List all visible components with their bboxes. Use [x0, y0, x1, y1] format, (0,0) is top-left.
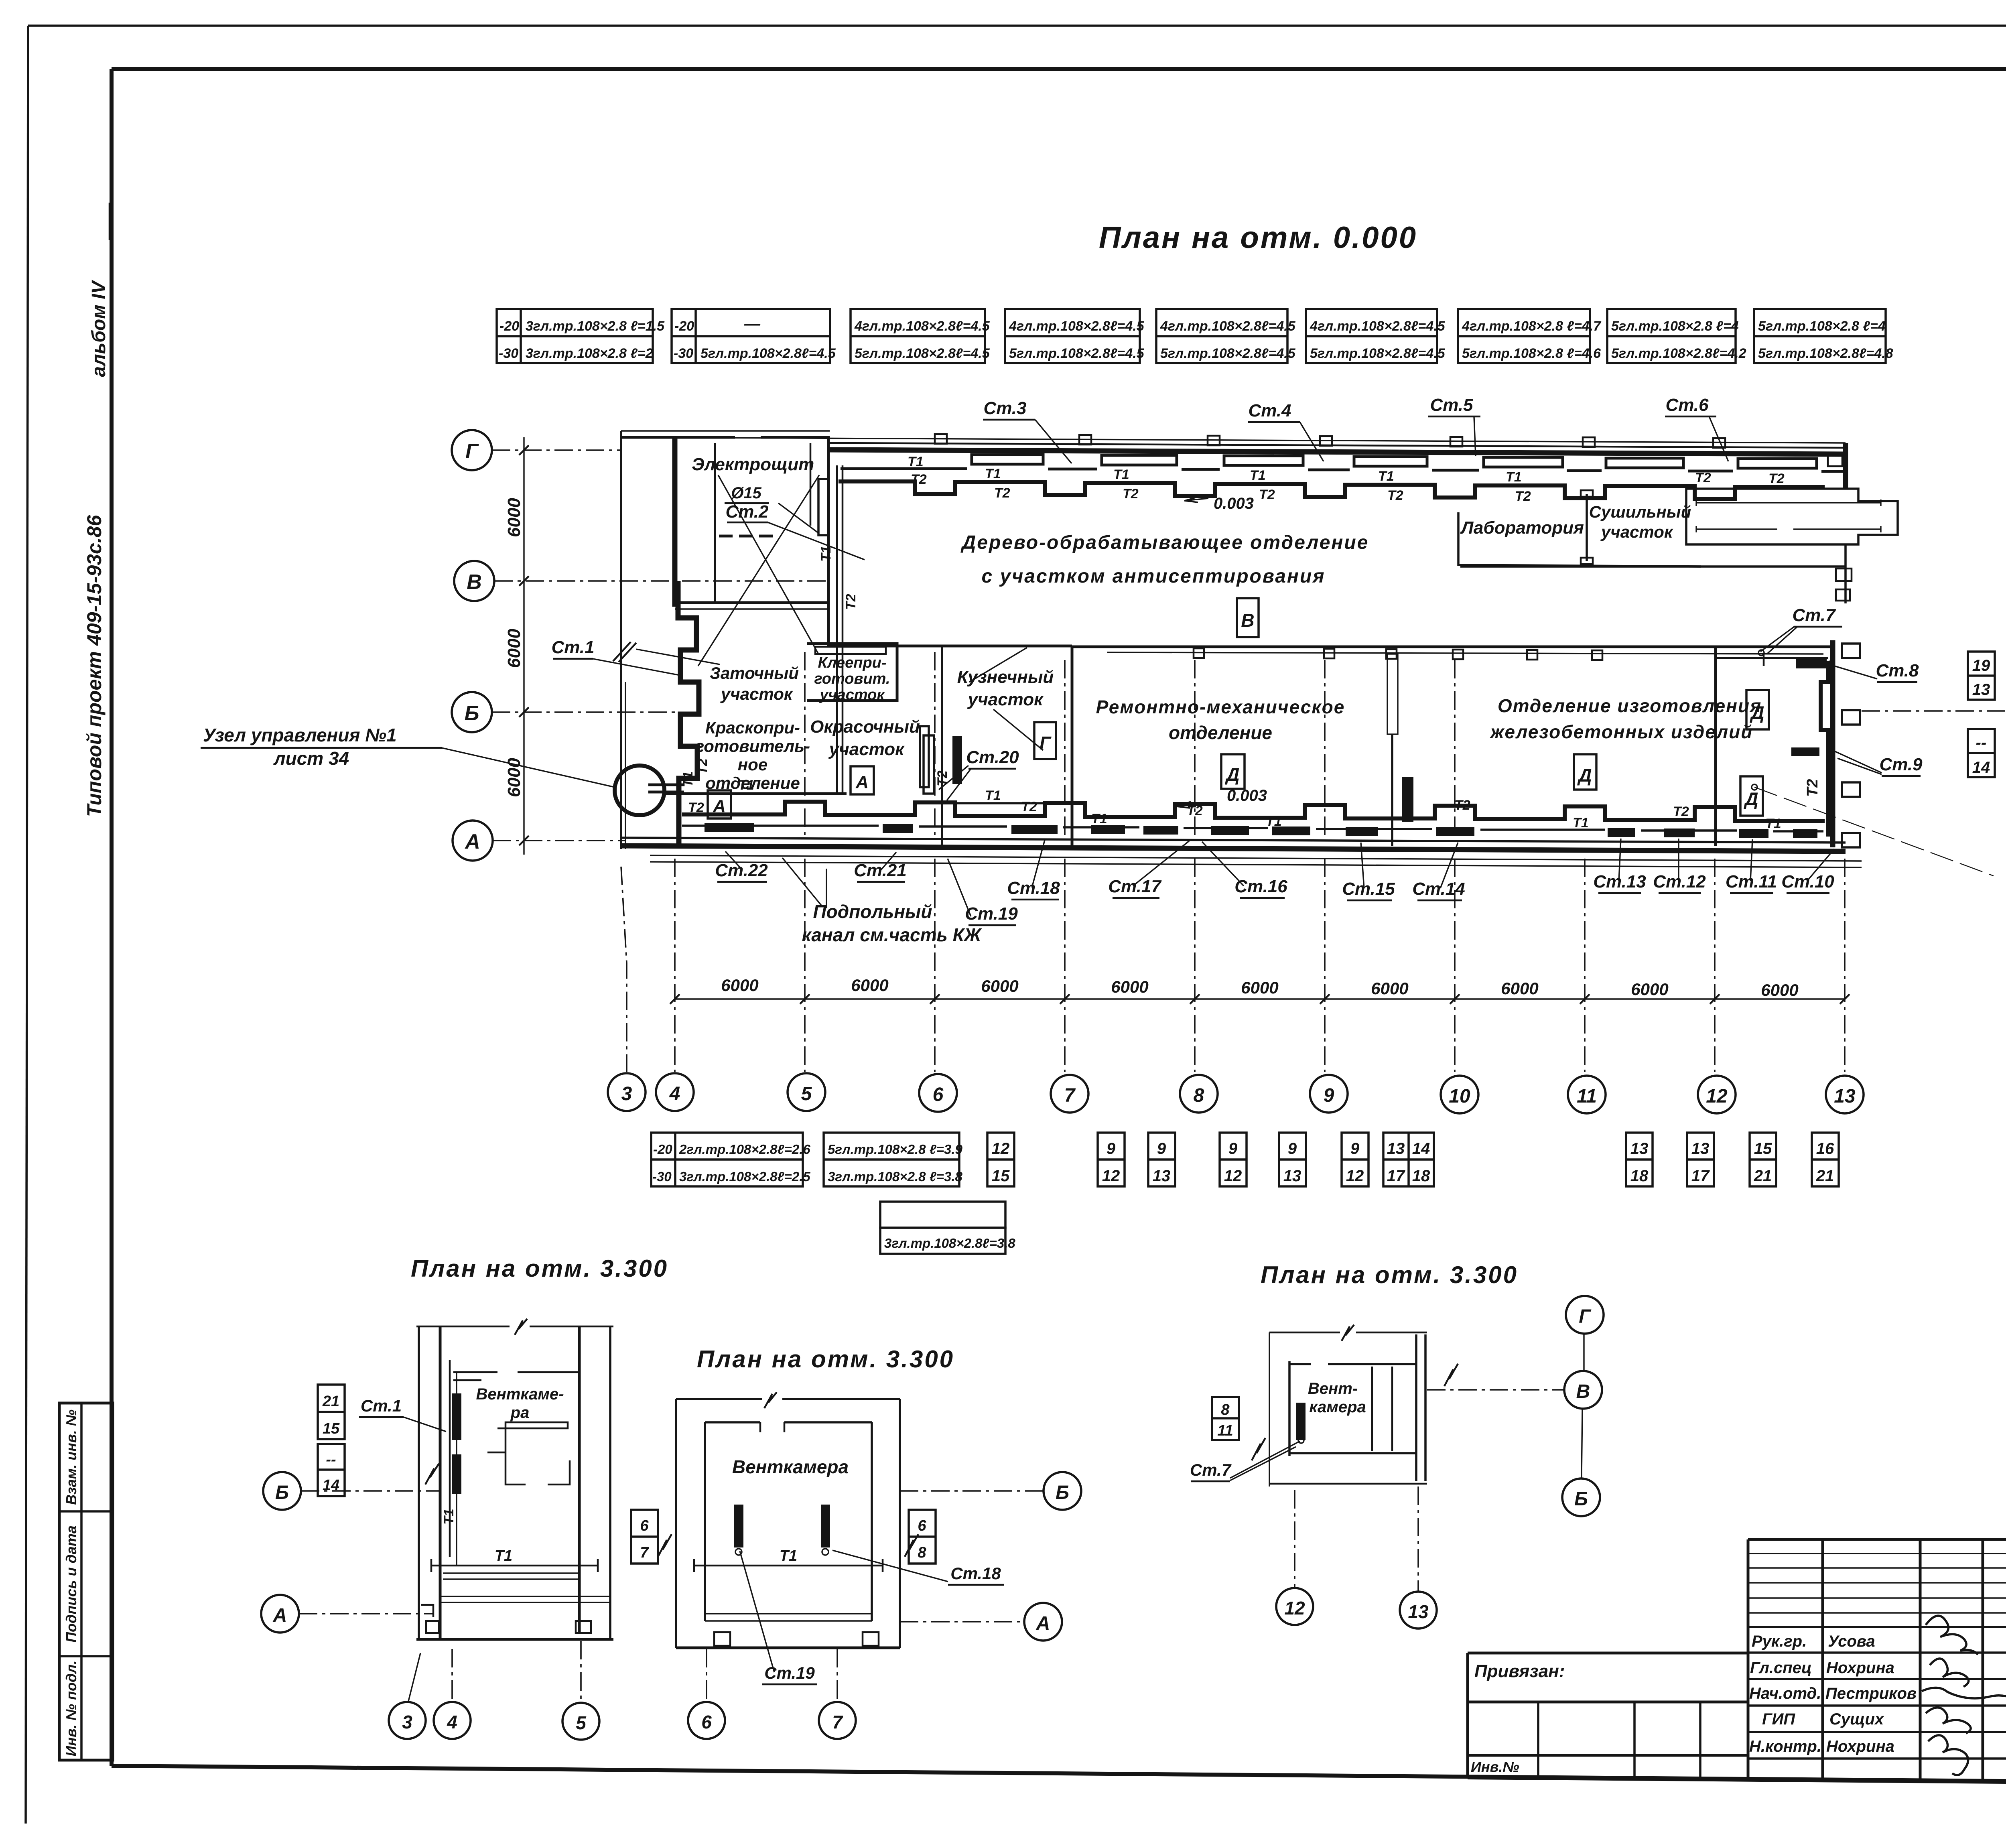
svg-text:Т1: Т1	[738, 778, 754, 793]
right wall top corner	[1843, 443, 1848, 489]
svg-text:Ст.7: Ст.7	[1792, 605, 1836, 625]
stamp row divider 2	[59, 1655, 113, 1657]
svg-text:-30: -30	[652, 1169, 672, 1184]
svg-text:Дерево-обрабатывающее отделен: Дерево-обрабатывающее отделение	[960, 532, 1369, 553]
svg-text:Отделение изготовления: Отделение изготовления	[1498, 695, 1762, 716]
BOTTOM WALL of building	[621, 846, 1846, 851]
svg-text:Т1: Т1	[1506, 469, 1522, 485]
svg-text:—: —	[744, 315, 761, 333]
svg-text:7: 7	[640, 1544, 649, 1561]
svg-text:лист 34: лист 34	[273, 748, 349, 769]
kuznechny right wall g7	[1071, 647, 1074, 846]
top wall main	[830, 450, 1846, 454]
svg-text:8: 8	[1194, 1085, 1204, 1106]
svg-text:Окрасочный: Окрасочный	[810, 717, 920, 737]
svg-text:6000: 6000	[504, 498, 524, 537]
svg-text:6000: 6000	[1501, 979, 1538, 998]
T2 riser vertical right	[1821, 661, 1828, 837]
plan L riser line	[456, 1372, 457, 1566]
svg-text:Т1: Т1	[1765, 816, 1781, 831]
dim ticks	[519, 445, 529, 845]
svg-text:Т1: Т1	[908, 454, 924, 469]
svg-text:16: 16	[1816, 1140, 1834, 1158]
plan R top line with break	[1269, 1332, 1427, 1334]
signature squiggle 5	[1928, 1735, 1968, 1775]
svg-text:участок: участок	[819, 686, 885, 703]
riser box 12/15	[987, 1133, 1014, 1186]
svg-text:21: 21	[1754, 1167, 1772, 1185]
svg-text:железобетонных изделий: железобетонных изделий	[1489, 721, 1753, 742]
svg-text:Д: Д	[1577, 765, 1592, 786]
svg-text:Т2: Т2	[1454, 798, 1470, 813]
thin top rows	[1748, 1554, 2006, 1613]
grid circle 13 plan R	[1400, 1592, 1437, 1629]
bottom radiator black bars	[705, 823, 754, 832]
svg-text:альбом IV: альбом IV	[88, 280, 110, 377]
svg-text:5гл.тр.108×2.8ℓ=4.8: 5гл.тр.108×2.8ℓ=4.8	[1758, 346, 1893, 361]
svg-text:3гл.тр.108×2.8 ℓ=1.5: 3гл.тр.108×2.8 ℓ=1.5	[526, 319, 665, 334]
right wall lower stubs	[1836, 569, 1852, 581]
svg-text:Т1: Т1	[1378, 469, 1394, 484]
svg-text:Ст.4: Ст.4	[1248, 401, 1291, 420]
svg-text:Т2: Т2	[688, 800, 704, 815]
svg-text:Т1: Т1	[495, 1547, 512, 1564]
svg-text:А: А	[855, 772, 869, 792]
svg-text:Ст.8: Ст.8	[1876, 661, 1919, 680]
dim ticks bottom	[670, 994, 1850, 1004]
svg-text:Венткаме-: Венткаме-	[476, 1385, 564, 1403]
svg-text:Т1: Т1	[1113, 467, 1129, 482]
svg-text:15: 15	[323, 1420, 340, 1437]
svg-text:Б: Б	[1056, 1482, 1069, 1503]
signature table frame	[1748, 1539, 2006, 1782]
svg-text:-20: -20	[674, 319, 694, 334]
grid lines through lower rooms	[805, 652, 1455, 837]
pipe T2 top stepped run	[839, 481, 1825, 499]
signature squiggle 3	[1922, 1688, 2006, 1698]
svg-text:отделение: отделение	[1169, 722, 1272, 743]
spec box 3	[851, 309, 990, 363]
svg-text:6000: 6000	[1761, 981, 1798, 999]
svg-text:5гл.тр.108×2.8ℓ=4.2: 5гл.тр.108×2.8ℓ=4.2	[1611, 346, 1746, 361]
svg-text:21: 21	[322, 1393, 339, 1410]
okrasochny black riser bar	[952, 736, 962, 784]
svg-text:В: В	[467, 571, 482, 594]
privyazan cell dividers	[1538, 1702, 1700, 1779]
electro room inner wall 1	[714, 443, 716, 602]
grid circle 3 plan L	[389, 1702, 426, 1739]
svg-text:6: 6	[640, 1517, 649, 1534]
svg-text:Т1: Т1	[985, 788, 1001, 803]
plan M grid leaders	[706, 1649, 707, 1701]
svg-text:12: 12	[1346, 1167, 1364, 1185]
svg-text:Ремонтно-механическое: Ремонтно-механическое	[1096, 697, 1345, 717]
svg-text:Подпись и дата: Подпись и дата	[63, 1525, 79, 1643]
left stamp box	[59, 1403, 113, 1760]
svg-text:9: 9	[1324, 1085, 1334, 1106]
svg-text:3гл.тр.108×2.8 ℓ=2: 3гл.тр.108×2.8 ℓ=2	[526, 346, 653, 361]
svg-text:Т1: Т1	[680, 771, 696, 787]
svg-text:Т2: Т2	[1387, 488, 1403, 503]
svg-text:Т1: Т1	[985, 466, 1001, 481]
svg-text:Т2: Т2	[994, 485, 1010, 501]
riser box 15/21	[1750, 1133, 1776, 1186]
radiator row under top wall	[972, 455, 1043, 464]
svg-text:14: 14	[1972, 759, 1990, 776]
kuznechny radiator	[924, 735, 934, 794]
svg-text:6: 6	[701, 1712, 712, 1732]
svg-text:9: 9	[1228, 1140, 1238, 1158]
svg-text:Подпольный: Подпольный	[813, 901, 932, 922]
svg-text:6000: 6000	[1111, 977, 1148, 996]
svg-text:Сущих: Сущих	[1829, 1710, 1884, 1728]
axis circle A	[453, 820, 493, 861]
svg-text:3гл.тр.108×2.8ℓ=3.8: 3гл.тр.108×2.8ℓ=3.8	[884, 1236, 1015, 1251]
svg-text:План на отм. 3.300: План на отм. 3.300	[697, 1346, 954, 1373]
okrasochny vertical radiator	[920, 726, 929, 787]
outer border left	[26, 26, 28, 1824]
grid circle 11	[1568, 1076, 1606, 1113]
riser box 19/13	[1968, 652, 1995, 700]
svg-text:8: 8	[918, 1544, 926, 1561]
svg-text:13: 13	[1972, 681, 1990, 699]
tall black riser bar	[1402, 777, 1413, 822]
leader St.2 to riser	[768, 522, 865, 560]
svg-text:Г: Г	[1040, 733, 1052, 753]
leader diagonals kuznechny	[969, 648, 1043, 750]
svg-text:2гл.тр.108×2.8ℓ=2.6: 2гл.тр.108×2.8ℓ=2.6	[679, 1142, 810, 1157]
electro room top wall	[621, 436, 830, 439]
electro panel dashed bar	[719, 535, 778, 538]
svg-text:6000: 6000	[721, 976, 758, 995]
svg-text:5гл.тр.108×2.8 ℓ=3.9: 5гл.тр.108×2.8 ℓ=3.9	[828, 1142, 963, 1157]
kleeprigotovit room walls	[807, 644, 897, 701]
grid circle 7	[1051, 1075, 1088, 1113]
svg-text:Ст.9: Ст.9	[1879, 755, 1923, 774]
svg-text:Ст.2: Ст.2	[725, 502, 769, 522]
svg-text:19: 19	[1972, 657, 1990, 674]
horizontal dimension line	[675, 998, 1845, 999]
riser box 9/12	[1098, 1133, 1125, 1186]
svg-text:15: 15	[1754, 1140, 1772, 1158]
right outer wall	[1830, 640, 1835, 847]
svg-text:9: 9	[1288, 1140, 1297, 1158]
svg-text:4гл.тр.108×2.8ℓ=4.5: 4гл.тр.108×2.8ℓ=4.5	[1310, 319, 1446, 334]
axis line G	[492, 449, 620, 451]
plan M T1 dimension	[694, 1565, 883, 1567]
stamp row divider 1	[59, 1510, 113, 1513]
svg-text:6000: 6000	[981, 977, 1018, 995]
axis line B	[492, 711, 678, 713]
svg-text:5гл.тр.108×2.8 ℓ=4.6: 5гл.тр.108×2.8 ℓ=4.6	[1462, 346, 1601, 361]
break mark on wall at B	[425, 1464, 439, 1484]
svg-text:В: В	[1576, 1381, 1590, 1402]
electro room right wall	[827, 437, 830, 646]
svg-text:Нохрина: Нохрина	[1826, 1659, 1894, 1677]
svg-text:Д: Д	[1743, 788, 1758, 809]
left jagged wall	[678, 581, 699, 846]
axis line A	[493, 840, 626, 841]
svg-text:А: А	[464, 830, 480, 853]
svg-text:с участком антисептирования: с участком антисептирования	[982, 566, 1326, 587]
svg-text:Пестриков: Пестриков	[1825, 1685, 1917, 1702]
grid circle 3	[608, 1073, 646, 1111]
plan M inner walls	[704, 1422, 706, 1621]
plan L grid leaders	[408, 1653, 420, 1701]
top wall thin outer line	[626, 437, 1846, 443]
svg-text:А: А	[1036, 1613, 1050, 1634]
kuznechny T1 line	[951, 802, 1067, 804]
svg-text:6000: 6000	[1631, 980, 1668, 999]
laboratoria left wall	[1457, 512, 1460, 566]
svg-text:5гл.тр.108×2.8 ℓ=4: 5гл.тр.108×2.8 ℓ=4	[1758, 319, 1886, 334]
plan L riser boxes 21/15	[318, 1385, 345, 1439]
svg-text:18: 18	[1412, 1167, 1430, 1185]
svg-text:Привязан:: Привязан:	[1474, 1661, 1565, 1681]
svg-text:Г: Г	[465, 440, 479, 463]
svg-text:6: 6	[933, 1084, 944, 1105]
svg-text:Типовой проект 409-15-93с.86: Типовой проект 409-15-93с.86	[83, 515, 106, 817]
grid circle 4	[656, 1073, 694, 1111]
kleeprigotovit radiator	[815, 647, 886, 654]
svg-text:Н.контр.: Н.контр.	[1749, 1738, 1821, 1755]
svg-text:12: 12	[1224, 1167, 1242, 1185]
svg-text:Ст.3: Ст.3	[983, 398, 1026, 418]
svg-text:Ст.10: Ст.10	[1781, 872, 1834, 892]
svg-text:13: 13	[1387, 1140, 1405, 1158]
svg-text:13: 13	[1834, 1086, 1856, 1107]
grid circle 8	[1180, 1075, 1218, 1113]
axis circle B	[452, 692, 492, 732]
svg-text:канал см.часть КЖ: канал см.часть КЖ	[802, 924, 982, 945]
svg-text:План на отм. 0.000: План на отм. 0.000	[1099, 221, 1417, 255]
spec box b2	[824, 1133, 963, 1186]
svg-text:4гл.тр.108×2.8ℓ=4.5: 4гл.тр.108×2.8ℓ=4.5	[1160, 319, 1296, 334]
plan L bottom assembly	[443, 1573, 579, 1579]
svg-text:Усова: Усова	[1828, 1633, 1875, 1650]
svg-text:6: 6	[918, 1517, 926, 1534]
plan L vertical walls	[418, 1326, 420, 1639]
plan M outer walls	[676, 1398, 900, 1400]
grid circle 5 plan L	[562, 1703, 599, 1740]
riser box 16/21	[1812, 1133, 1839, 1186]
svg-text:Ст.14: Ст.14	[1412, 879, 1465, 899]
svg-text:9: 9	[1107, 1140, 1116, 1158]
svg-text:Инв.№: Инв.№	[1471, 1759, 1519, 1775]
svg-text:4: 4	[447, 1712, 457, 1732]
st7 riser pipe	[1716, 654, 1828, 666]
svg-text:Ø15: Ø15	[731, 484, 761, 502]
svg-text:11: 11	[1577, 1086, 1597, 1107]
svg-text:12: 12	[1102, 1167, 1120, 1185]
grid circle 9	[1310, 1075, 1348, 1113]
plan R left dim line	[1269, 1332, 1270, 1487]
dryer body	[1686, 489, 1898, 544]
svg-text:0.003: 0.003	[1227, 787, 1267, 804]
grid circle 12 plan R	[1276, 1588, 1313, 1625]
svg-text:Ст.20: Ст.20	[966, 747, 1019, 767]
grid circle 6 plan M	[688, 1702, 725, 1739]
plan L inner partition hooks	[487, 1422, 570, 1484]
svg-text:12: 12	[992, 1140, 1010, 1158]
axis circle A plan M right	[1024, 1603, 1062, 1641]
signature squiggle 1	[1926, 1616, 1978, 1655]
svg-text:ра: ра	[510, 1404, 530, 1422]
svg-text:4гл.тр.108×2.8ℓ=4.5: 4гл.тр.108×2.8ℓ=4.5	[1009, 319, 1145, 334]
underline under IV	[109, 203, 111, 240]
axis circle G	[452, 430, 492, 470]
spec box 5	[1156, 309, 1296, 363]
riser box 9/13	[1148, 1133, 1175, 1186]
uzel upravleniya circle	[615, 766, 664, 815]
svg-text:Т1: Т1	[1266, 814, 1282, 829]
pipe T1 top run	[841, 469, 1846, 471]
plan L top line with break	[416, 1326, 613, 1328]
svg-text:Ст.22: Ст.22	[715, 861, 768, 880]
svg-text:участок: участок	[1600, 522, 1673, 541]
svg-text:Ст.1: Ст.1	[361, 1396, 402, 1415]
axis circle V	[454, 561, 494, 601]
svg-text:5гл.тр.108×2.8ℓ=4.5: 5гл.тр.108×2.8ℓ=4.5	[1009, 346, 1145, 361]
svg-text:Т1: Т1	[1091, 811, 1107, 827]
box V	[1237, 598, 1259, 637]
spec box 4	[1005, 309, 1145, 363]
svg-text:5: 5	[801, 1083, 812, 1105]
plan M bottom assembly	[705, 1614, 872, 1621]
svg-text:Сушильный: Сушильный	[1589, 502, 1691, 521]
riser box dash/14	[1968, 729, 1995, 777]
svg-text:готовит.: готовит.	[814, 670, 890, 687]
svg-text:Т1: Т1	[441, 1509, 457, 1525]
axis circle A plan L	[261, 1595, 299, 1633]
riser box 9/12 b	[1220, 1133, 1247, 1186]
svg-text:Вент-: Вент-	[1308, 1380, 1358, 1397]
svg-text:-30: -30	[674, 346, 693, 361]
svg-text:--: --	[1976, 734, 1987, 751]
svg-text:Т2: Т2	[843, 594, 859, 610]
svg-text:участок: участок	[967, 690, 1044, 709]
plan L T1 dimension	[431, 1565, 598, 1567]
riser box 6/7 plan M	[631, 1510, 658, 1564]
plan R outer bottom line	[1269, 1483, 1427, 1485]
svg-text:Нохрина: Нохрина	[1826, 1738, 1894, 1755]
svg-text:-20: -20	[499, 319, 519, 334]
box A small left	[708, 790, 731, 818]
box A okrasochny	[851, 766, 874, 794]
svg-text:План на отм. 3.300: План на отм. 3.300	[411, 1255, 668, 1282]
electro room left wall	[672, 437, 678, 607]
svg-text:Т2: Т2	[1768, 471, 1785, 486]
svg-text:Т1: Т1	[1573, 815, 1589, 831]
plan L black bars	[452, 1393, 461, 1440]
svg-text:готовитель-: готовитель-	[695, 737, 810, 755]
plan R room walls	[1289, 1363, 1416, 1365]
svg-text:13: 13	[1408, 1601, 1429, 1622]
svg-text:9: 9	[1157, 1140, 1166, 1158]
spec box b1	[651, 1133, 810, 1186]
svg-text:5гл.тр.108×2.8ℓ=4.5: 5гл.тр.108×2.8ℓ=4.5	[1310, 346, 1446, 361]
axis circle B plan L	[263, 1472, 301, 1510]
grid circle 12	[1698, 1076, 1736, 1113]
svg-text:9: 9	[1350, 1140, 1360, 1158]
leader uzel	[442, 748, 615, 787]
svg-text:6000: 6000	[504, 758, 524, 797]
svg-text:ное: ное	[738, 755, 767, 774]
sushilny divider wall	[1586, 494, 1588, 561]
svg-text:Т2: Т2	[1695, 470, 1711, 485]
svg-text:Ст.12: Ст.12	[1653, 872, 1706, 892]
svg-text:18: 18	[1630, 1167, 1649, 1185]
spec box 9	[1754, 309, 1893, 363]
outer border top	[28, 24, 2006, 27]
svg-text:Т2: Т2	[1673, 804, 1689, 819]
svg-text:3: 3	[621, 1083, 632, 1105]
svg-text:14: 14	[1412, 1140, 1430, 1158]
svg-text:Ст.1: Ст.1	[551, 638, 594, 657]
box D remontno	[1221, 754, 1245, 789]
svg-text:-20: -20	[653, 1142, 672, 1157]
svg-text:0.003: 0.003	[1214, 495, 1254, 512]
svg-text:7: 7	[832, 1712, 843, 1732]
plan R axis V dash-dot	[1427, 1389, 1564, 1391]
laboratoria bottom wall	[1458, 565, 1701, 567]
svg-text:8: 8	[1221, 1401, 1230, 1418]
underground channel lines	[650, 855, 1862, 861]
grid circle 4 plan L	[434, 1702, 471, 1739]
spec box 7	[1458, 309, 1602, 363]
svg-text:Т2: Т2	[1259, 487, 1275, 502]
grid circle 10	[1441, 1076, 1478, 1113]
plan M break marks	[658, 1534, 672, 1557]
svg-text:4гл.тр.108×2.8ℓ=4.5: 4гл.тр.108×2.8ℓ=4.5	[854, 319, 990, 334]
title block bottom edge	[1468, 1777, 2006, 1786]
svg-text:Г: Г	[1579, 1306, 1592, 1327]
electro room bottom wall	[675, 601, 828, 604]
electro vertical radiator	[818, 479, 829, 535]
svg-text:11: 11	[1217, 1422, 1233, 1439]
box D right lower	[1740, 776, 1763, 816]
grid line 3 slant to circle	[621, 867, 627, 1072]
black bar st9	[1791, 747, 1819, 756]
dryer inner rails	[1696, 500, 1881, 506]
svg-text:6000: 6000	[504, 629, 524, 668]
svg-text:Гл.спец: Гл.спец	[1750, 1659, 1812, 1677]
svg-text:Т2: Т2	[911, 472, 927, 487]
svg-text:Т2: Т2	[1021, 799, 1037, 814]
riser pipes right of electro room	[837, 465, 843, 794]
svg-text:4гл.тр.108×2.8 ℓ=4.7: 4гл.тр.108×2.8 ℓ=4.7	[1462, 319, 1602, 334]
svg-text:13: 13	[1153, 1167, 1171, 1185]
top wall inner thin	[830, 443, 1846, 448]
leader betonosmesitelny	[1754, 787, 1994, 876]
riser box 9/12 c	[1342, 1133, 1368, 1186]
svg-text:5гл.тр.108×2.8ℓ=4.5: 5гл.тр.108×2.8ℓ=4.5	[855, 346, 990, 361]
svg-text:Д: Д	[1749, 702, 1764, 723]
plan R grid leaders	[1294, 1490, 1295, 1587]
svg-text:--: --	[326, 1451, 336, 1468]
svg-text:4: 4	[669, 1083, 680, 1105]
svg-text:Б: Б	[465, 702, 479, 725]
svg-text:Краскопри-: Краскопри-	[705, 718, 800, 737]
svg-text:Ст.5: Ст.5	[1430, 395, 1473, 415]
svg-text:участок: участок	[720, 684, 793, 703]
svg-text:5гл.тр.108×2.8 ℓ=4: 5гл.тр.108×2.8 ℓ=4	[1611, 319, 1739, 334]
svg-text:Б: Б	[275, 1482, 289, 1503]
svg-text:Д: Д	[1224, 764, 1239, 785]
spec box 2	[672, 309, 836, 363]
riser box 8/11 plan R	[1212, 1397, 1239, 1440]
svg-text:План на отм. 3.300: План на отм. 3.300	[1261, 1261, 1518, 1288]
